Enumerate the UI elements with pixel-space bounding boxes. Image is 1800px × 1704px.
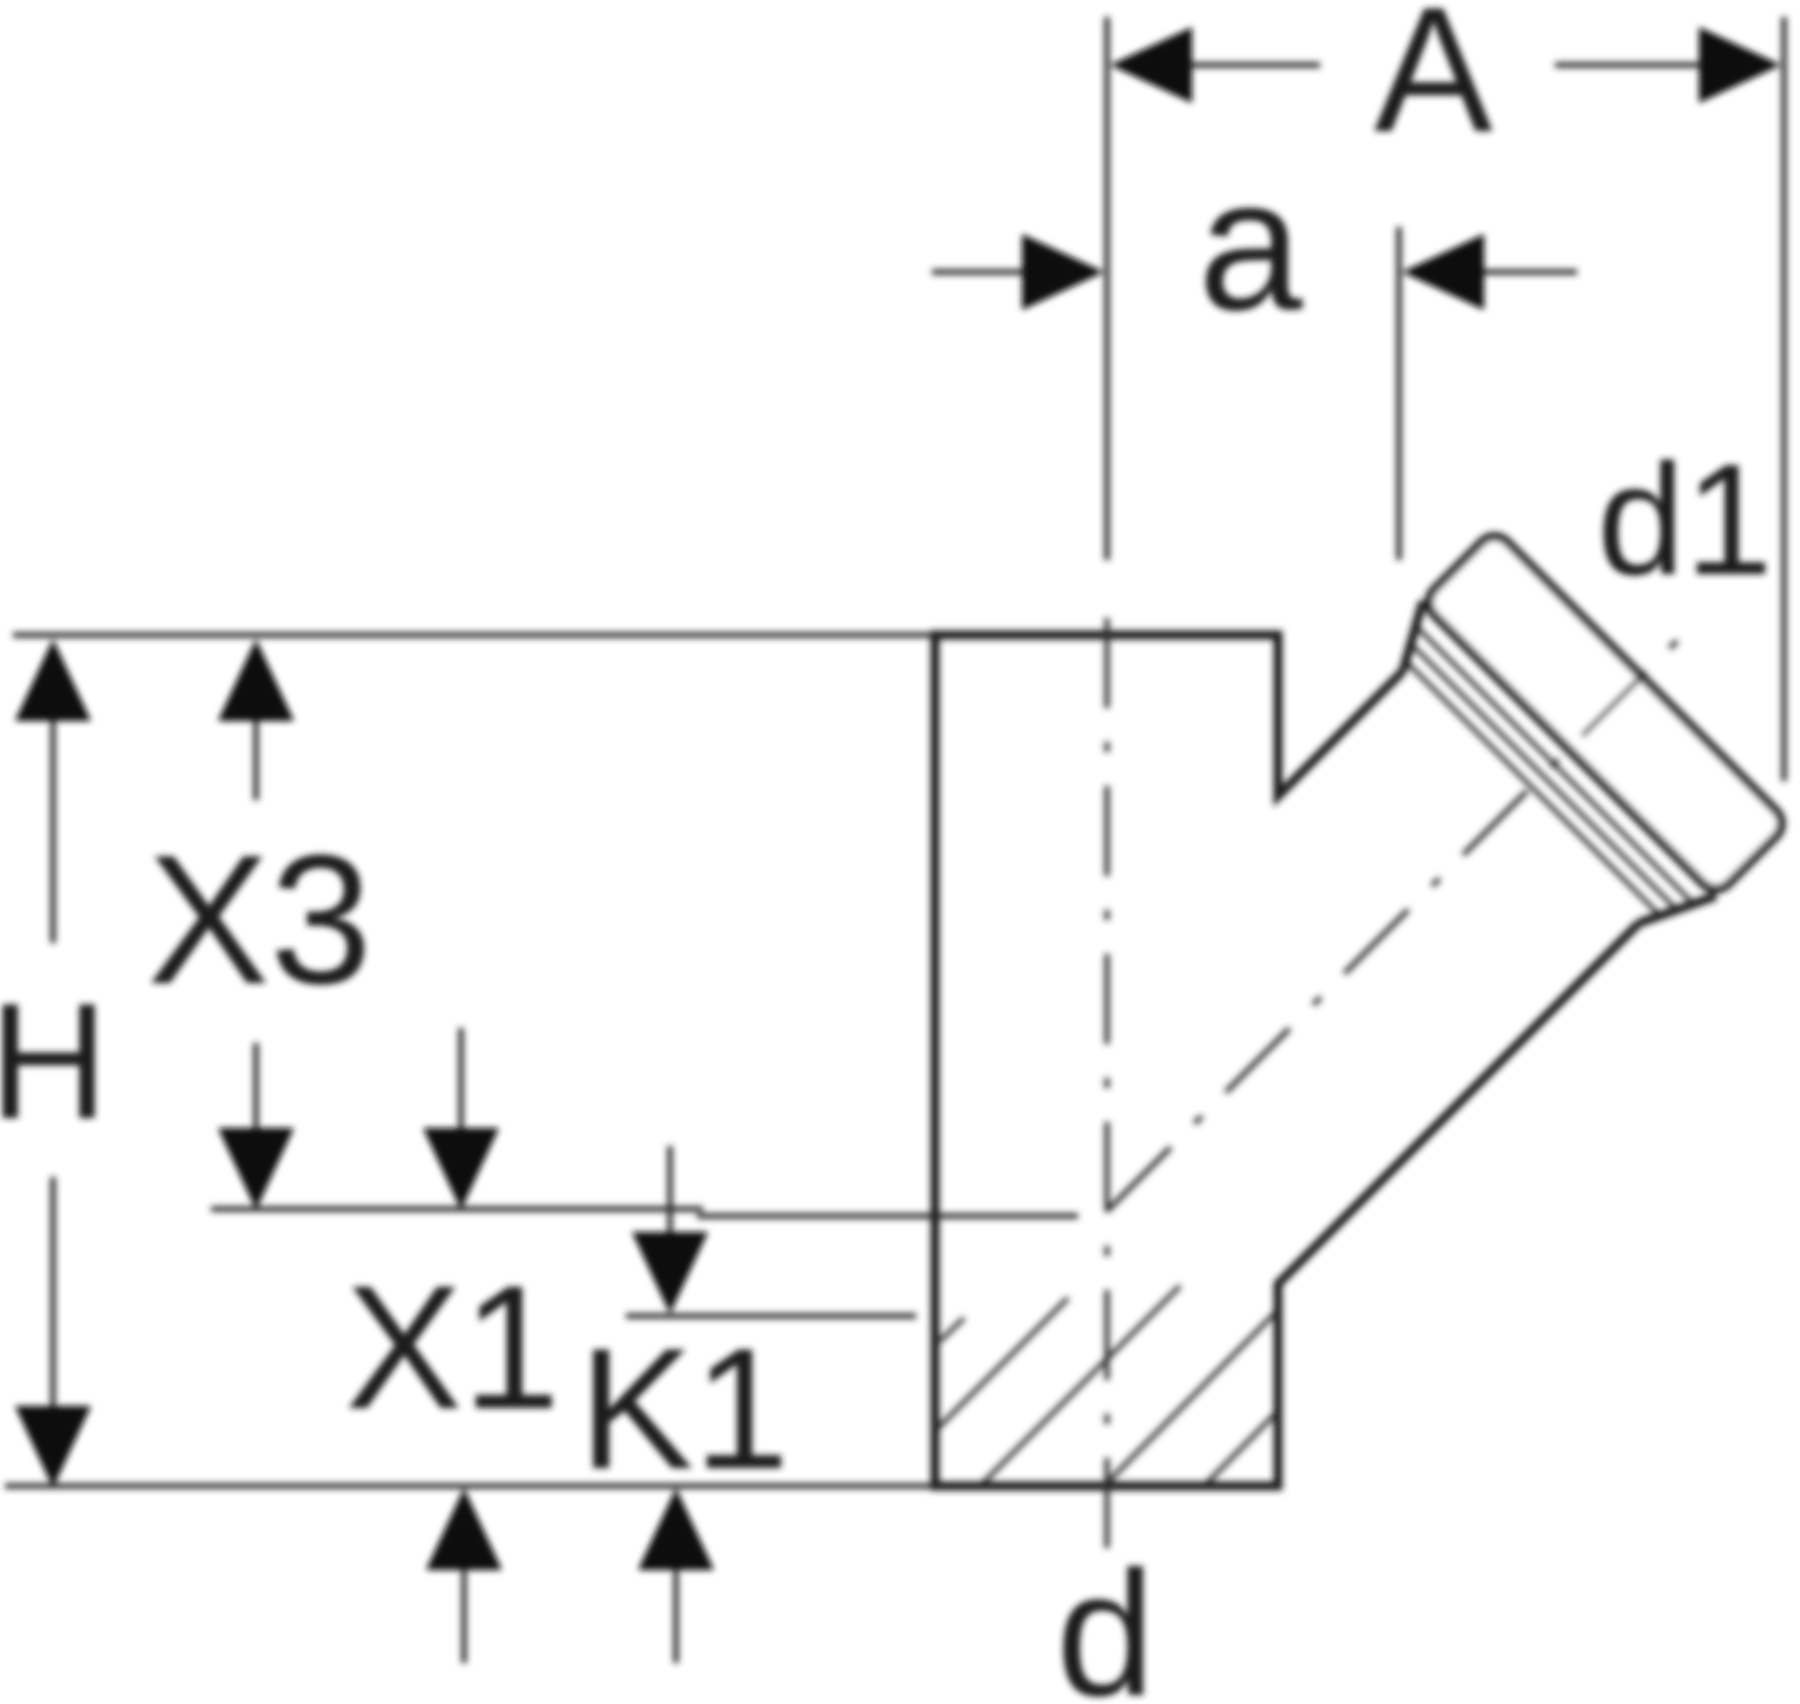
svg-text:d1: d1 [1597, 432, 1773, 608]
svg-text:d: d [1056, 1534, 1155, 1704]
svg-text:X3: X3 [147, 816, 372, 1022]
svg-text:K1: K1 [579, 1313, 789, 1505]
svg-text:H: H [0, 969, 108, 1153]
svg-text:A: A [1374, 0, 1493, 169]
svg-text:a: a [1198, 139, 1303, 349]
svg-text:X1: X1 [345, 1250, 560, 1446]
